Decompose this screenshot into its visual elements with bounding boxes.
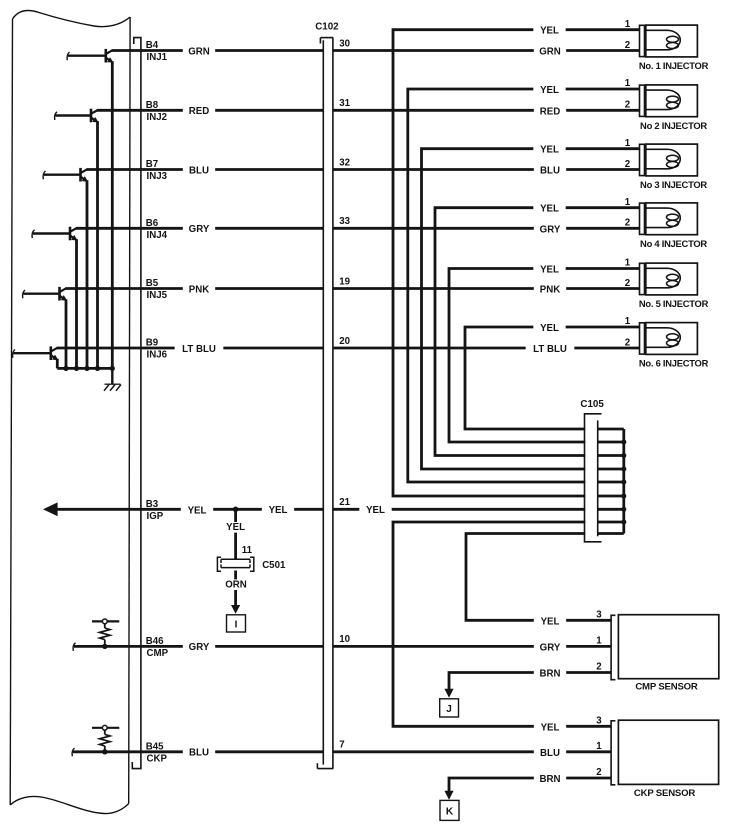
svg-text:B3: B3 [146, 499, 159, 510]
svg-text:7: 7 [339, 740, 344, 751]
junction dot on ground bus [110, 366, 115, 371]
transistor Q5 (INJ5 driver) [23, 287, 68, 301]
injector U1: No. 1 INJECTOR [646, 25, 698, 57]
box I (harness destination) [227, 615, 246, 632]
wire B46/CMP GRY row: ECM pin B46 through C102 pin 10 to CMP sensor pin 1 [74, 645, 611, 648]
injector connector bracket No.3 [640, 144, 645, 175]
svg-text:2: 2 [625, 218, 630, 229]
svg-text:19: 19 [339, 276, 350, 287]
svg-text:GRY: GRY [189, 224, 210, 235]
wire row B5/INJ5: ECM pin B5 through C102 pin 19 (PNK) to No.5 injector pin 2 [66, 287, 640, 290]
ECM module outline (torn-edge boundary) [13, 11, 131, 27]
svg-text:INJ3: INJ3 [147, 171, 168, 182]
svg-text:No 3 INJECTOR: No 3 INJECTOR [640, 179, 707, 190]
svg-text:YEL: YEL [540, 204, 559, 215]
arrow into box I [231, 605, 240, 614]
injector connector bracket No.5 [640, 263, 645, 294]
YEL splice bus on right of C105 [622, 429, 625, 534]
wire label YEL (IGP, right) [359, 505, 391, 516]
junction dot on ground bus [84, 366, 89, 371]
svg-text:B4: B4 [146, 40, 159, 51]
transistor Q3 (INJ3 driver) [43, 168, 88, 182]
transistor Q4 (INJ4 driver) [32, 227, 78, 241]
resistor R-CMP (bias network inside ECM) [92, 619, 119, 646]
wire label GRN (left) [183, 46, 215, 57]
svg-text:21: 21 [339, 497, 350, 508]
svg-text:GRY: GRY [540, 642, 561, 653]
svg-text:32: 32 [339, 157, 350, 168]
wire B45/CKP BLU row: ECM pin B45 through C102 pin 7 to CKP sensor pin 1 [73, 750, 611, 753]
ground stem [111, 368, 113, 384]
svg-text:31: 31 [339, 98, 350, 109]
svg-text:1: 1 [596, 741, 602, 752]
wire YEL feed of No.5 injector pin 1 (drops to C105 splice) [449, 269, 640, 443]
svg-text:2: 2 [625, 100, 630, 111]
wire emitter of Q5 down to ground bus [65, 299, 68, 368]
wire BRN from CKP sensor pin 2 to arrow K [449, 778, 611, 791]
svg-text:3: 3 [596, 715, 602, 726]
wire ORN from C501 pin 11 down to arrow I [234, 571, 237, 607]
svg-text:J: J [446, 704, 452, 715]
wire label LT BLU (left) [175, 344, 224, 355]
svg-text:30: 30 [339, 38, 350, 49]
svg-text:YEL: YEL [269, 505, 288, 516]
svg-text:RED: RED [540, 106, 560, 117]
wire label YEL (to CMP pin 3) [534, 616, 566, 627]
svg-text:CKP SENSOR: CKP SENSOR [634, 788, 696, 799]
svg-text:2: 2 [625, 337, 630, 348]
svg-text:YEL: YEL [540, 145, 559, 156]
svg-text:LT BLU: LT BLU [533, 344, 567, 355]
svg-text:No. 5 INJECTOR: No. 5 INJECTOR [639, 298, 709, 309]
wire label YEL (injector 2 feed) [533, 85, 565, 96]
junction dot on C105 splice bus [621, 453, 626, 458]
svg-text:LT BLU: LT BLU [182, 344, 216, 355]
wire YEL feed of No.2 injector pin 1 (drops to C105 splice) [408, 89, 640, 482]
wire emitter of Q2 down to ground bus [96, 121, 99, 368]
wire YEL from C105 splice down to CKP sensor pin 3 [393, 522, 624, 726]
svg-text:B7: B7 [146, 159, 158, 170]
CMP sensor connector bracket [611, 615, 615, 679]
svg-text:BLU: BLU [189, 748, 209, 759]
wire YEL feed of No.4 injector pin 1 (drops to C105 splice) [435, 208, 640, 456]
svg-text:INJ6: INJ6 [147, 350, 168, 361]
wire label YEL (injector 5 feed) [533, 264, 565, 275]
transistor Q6 (INJ6 driver) [13, 346, 59, 360]
left arrow (power feed continuation) on IGP row [43, 502, 58, 516]
injector connector bracket No.6 [640, 323, 645, 354]
svg-text:C501: C501 [262, 560, 286, 571]
svg-text:B8: B8 [146, 100, 159, 111]
svg-text:3: 3 [596, 609, 602, 620]
svg-text:BRN: BRN [540, 669, 561, 680]
wire label GRN (at injector) [534, 46, 566, 57]
CKP sensor connector bracket [611, 721, 615, 785]
svg-text:1: 1 [625, 316, 631, 327]
svg-text:YEL: YEL [541, 616, 560, 627]
svg-text:1: 1 [596, 635, 602, 646]
svg-text:YEL: YEL [540, 323, 559, 334]
ECM connector column (pin header) [132, 38, 141, 769]
svg-text:B5: B5 [146, 278, 159, 289]
wire label RED (at injector) [534, 106, 566, 117]
resistor R-CKP (bias network inside ECM) [92, 725, 119, 751]
transistor Q1 (INJ1 driver) [67, 49, 113, 63]
svg-text:GRN: GRN [539, 47, 561, 58]
svg-text:C102: C102 [315, 22, 339, 33]
svg-text:IGP: IGP [147, 511, 164, 522]
wire label YEL (injector 1 feed) [533, 26, 565, 37]
svg-text:INJ2: INJ2 [147, 112, 167, 123]
junction dot on ground bus [63, 366, 68, 371]
wire row B7/INJ3: ECM pin B7 through C102 pin 32 (BLU) to No.3 injector pin 2 [87, 168, 640, 171]
svg-text:B45: B45 [146, 742, 164, 753]
svg-text:PNK: PNK [189, 284, 209, 295]
injector connector bracket No.2 [640, 85, 645, 116]
svg-text:GRN: GRN [188, 46, 210, 57]
wire label BLU (left) [183, 747, 215, 758]
injector U3: No 3 INJECTOR [646, 144, 698, 176]
svg-text:1: 1 [625, 258, 631, 269]
svg-text:B46: B46 [146, 636, 164, 647]
wire label BLU (at injector) [534, 165, 566, 176]
svg-text:C105: C105 [580, 399, 604, 410]
svg-text:YEL: YEL [540, 85, 559, 96]
svg-text:1: 1 [625, 197, 631, 208]
wire emitter of Q3 down to ground bus [86, 180, 89, 368]
svg-text:RED: RED [189, 106, 209, 117]
wire emitter of Q4 down to ground bus [75, 239, 78, 368]
svg-text:No 2 INJECTOR: No 2 INJECTOR [640, 120, 707, 131]
wire YEL from C105 splice down to CMP sensor pin 3 [466, 534, 624, 621]
connector C105 (splice pack) [585, 414, 602, 542]
wire YEL feed of No.6 injector pin 1 (drops to C105 splice) [465, 327, 640, 429]
junction dot on C105 splice bus [621, 519, 626, 524]
wire label PNK (left) [183, 284, 215, 295]
wire emitter of Q6 down to ground bus [56, 359, 59, 369]
wire label YEL (injector 3 feed) [533, 145, 565, 156]
wire label ORN [220, 579, 252, 590]
svg-text:2: 2 [596, 767, 601, 778]
wire YEL feed of No.3 injector pin 1 (drops to C105 splice) [422, 149, 640, 469]
arrow into box K [444, 791, 453, 800]
svg-text:CMP: CMP [147, 648, 169, 659]
svg-text:BLU: BLU [189, 165, 209, 176]
svg-text:2: 2 [625, 278, 630, 289]
wire label BRN (CMP pin 2) [534, 668, 566, 679]
svg-text:YEL: YEL [541, 722, 560, 733]
wire emitter of Q1 down to ground bus [111, 61, 114, 368]
svg-text:No 4 INJECTOR: No 4 INJECTOR [640, 238, 707, 249]
wire label BLU (at CKP sensor) [534, 748, 566, 759]
svg-text:YEL: YEL [188, 505, 207, 516]
box J (harness destination) [440, 699, 459, 717]
ground symbol [104, 384, 121, 391]
svg-text:10: 10 [339, 634, 350, 645]
svg-text:K: K [446, 807, 454, 818]
svg-text:YEL: YEL [226, 522, 245, 533]
junction dot on C105 splice bus [621, 479, 626, 484]
wire label GRY (left) [183, 642, 215, 653]
injector connector bracket No.1 [640, 25, 645, 56]
svg-text:INJ5: INJ5 [147, 290, 168, 301]
svg-text:CMP SENSOR: CMP SENSOR [635, 681, 698, 692]
svg-text:YEL: YEL [540, 26, 559, 37]
wire row B8/INJ2: ECM pin B8 through C102 pin 31 (RED) to No.2 injector pin 2 [97, 109, 640, 112]
svg-text:33: 33 [339, 216, 350, 227]
svg-text:BLU: BLU [540, 166, 560, 177]
svg-text:INJ4: INJ4 [147, 230, 168, 241]
junction dot R-CKP to row wire [102, 749, 107, 754]
wire label YEL (branch to C501) [219, 522, 251, 533]
arrow into box J [444, 689, 453, 698]
junction dot R-CMP to row wire [102, 644, 107, 649]
continuation tick on B46 row [73, 643, 75, 651]
svg-text:B9: B9 [146, 338, 159, 349]
svg-text:B6: B6 [146, 218, 159, 229]
svg-text:11: 11 [242, 545, 253, 556]
svg-text:20: 20 [339, 336, 350, 347]
transistor Q2 (INJ2 driver) [55, 109, 99, 123]
svg-text:2: 2 [625, 159, 630, 170]
svg-text:GRY: GRY [540, 224, 561, 235]
svg-text:1: 1 [625, 78, 631, 89]
injector connector bracket No.4 [640, 203, 645, 234]
junction dot on ground bus [95, 366, 100, 371]
wire label GRY (at injector) [534, 224, 566, 235]
junction dot on C105 splice bus [621, 439, 626, 444]
connector C102 [317, 38, 333, 769]
svg-text:No. 1 INJECTOR: No. 1 INJECTOR [639, 60, 709, 71]
injector U5: No. 5 INJECTOR [646, 263, 698, 295]
wire label YEL (to CKP pin 3) [534, 722, 566, 733]
wire YEL feed of No.1 injector pin 1 (drops to C105 splice) [393, 30, 640, 496]
wire label YEL (IGP, left) [181, 505, 213, 516]
svg-text:1: 1 [625, 138, 631, 149]
junction dot on C105 splice bus [621, 507, 626, 512]
svg-text:1: 1 [625, 19, 631, 30]
svg-text:2: 2 [596, 662, 601, 673]
wire label PNK (at injector) [534, 284, 566, 295]
wire label YEL (injector 4 feed) [533, 204, 565, 215]
junction dot on ground bus [74, 366, 79, 371]
injector U4: No 4 INJECTOR [646, 203, 698, 235]
wire row B9/INJ6: ECM pin B9 through C102 pin 20 (LT BLU) to No.6 injector pin 2 [57, 347, 640, 350]
junction dot on C105 splice bus [621, 466, 626, 471]
wire row B6/INJ4: ECM pin B6 through C102 pin 33 (GRY) to No.4 injector pin 2 [76, 227, 640, 230]
wire row B4/INJ1: ECM pin B4 through C102 pin 30 (GRN) to No.1 injector pin 2 [112, 49, 640, 52]
wire label YEL (IGP, mid) [262, 505, 294, 516]
svg-text:GRY: GRY [189, 642, 210, 653]
wire label RED (left) [183, 106, 215, 117]
svg-text:YEL: YEL [540, 265, 559, 276]
svg-text:2: 2 [625, 40, 630, 51]
svg-text:PNK: PNK [540, 285, 560, 296]
wire BRN from CMP sensor pin 2 to arrow J [449, 673, 611, 690]
svg-text:I: I [235, 620, 238, 631]
wire label LT BLU (at injector) [526, 344, 575, 355]
svg-text:No. 6 INJECTOR: No. 6 INJECTOR [639, 358, 709, 369]
connector C501 [217, 557, 253, 571]
box K (harness destination) [440, 800, 459, 820]
continuation tick on B45 row [72, 748, 74, 756]
injector U6: No. 6 INJECTOR [646, 323, 698, 355]
CKP sensor box [618, 720, 718, 784]
junction node on IGP YEL wire [233, 507, 239, 513]
svg-text:CKP: CKP [147, 753, 168, 764]
junction dot on C105 splice bus [621, 493, 626, 498]
injector U2: No 2 INJECTOR [646, 85, 698, 117]
ground bus joining all injector driver emitters [57, 367, 114, 370]
svg-text:BLU: BLU [540, 748, 560, 759]
svg-text:INJ1: INJ1 [147, 52, 168, 63]
wire B3/IGP YEL row: arrow, ECM pin B3, C102 pin 21, into C105 splice [57, 508, 624, 511]
wire label YEL (injector 6 feed) [533, 323, 565, 334]
wire label BLU (left) [183, 165, 215, 176]
CMP sensor box [618, 615, 718, 679]
wire label GRY (at CMP sensor) [534, 642, 566, 653]
svg-text:YEL: YEL [366, 505, 385, 516]
svg-text:BRN: BRN [540, 774, 561, 785]
wire label GRY (left) [183, 224, 215, 235]
wire YEL branch down from junction to C501 [234, 509, 237, 558]
svg-text:ORN: ORN [225, 580, 247, 591]
wire label BRN (CKP pin 2) [534, 774, 566, 785]
